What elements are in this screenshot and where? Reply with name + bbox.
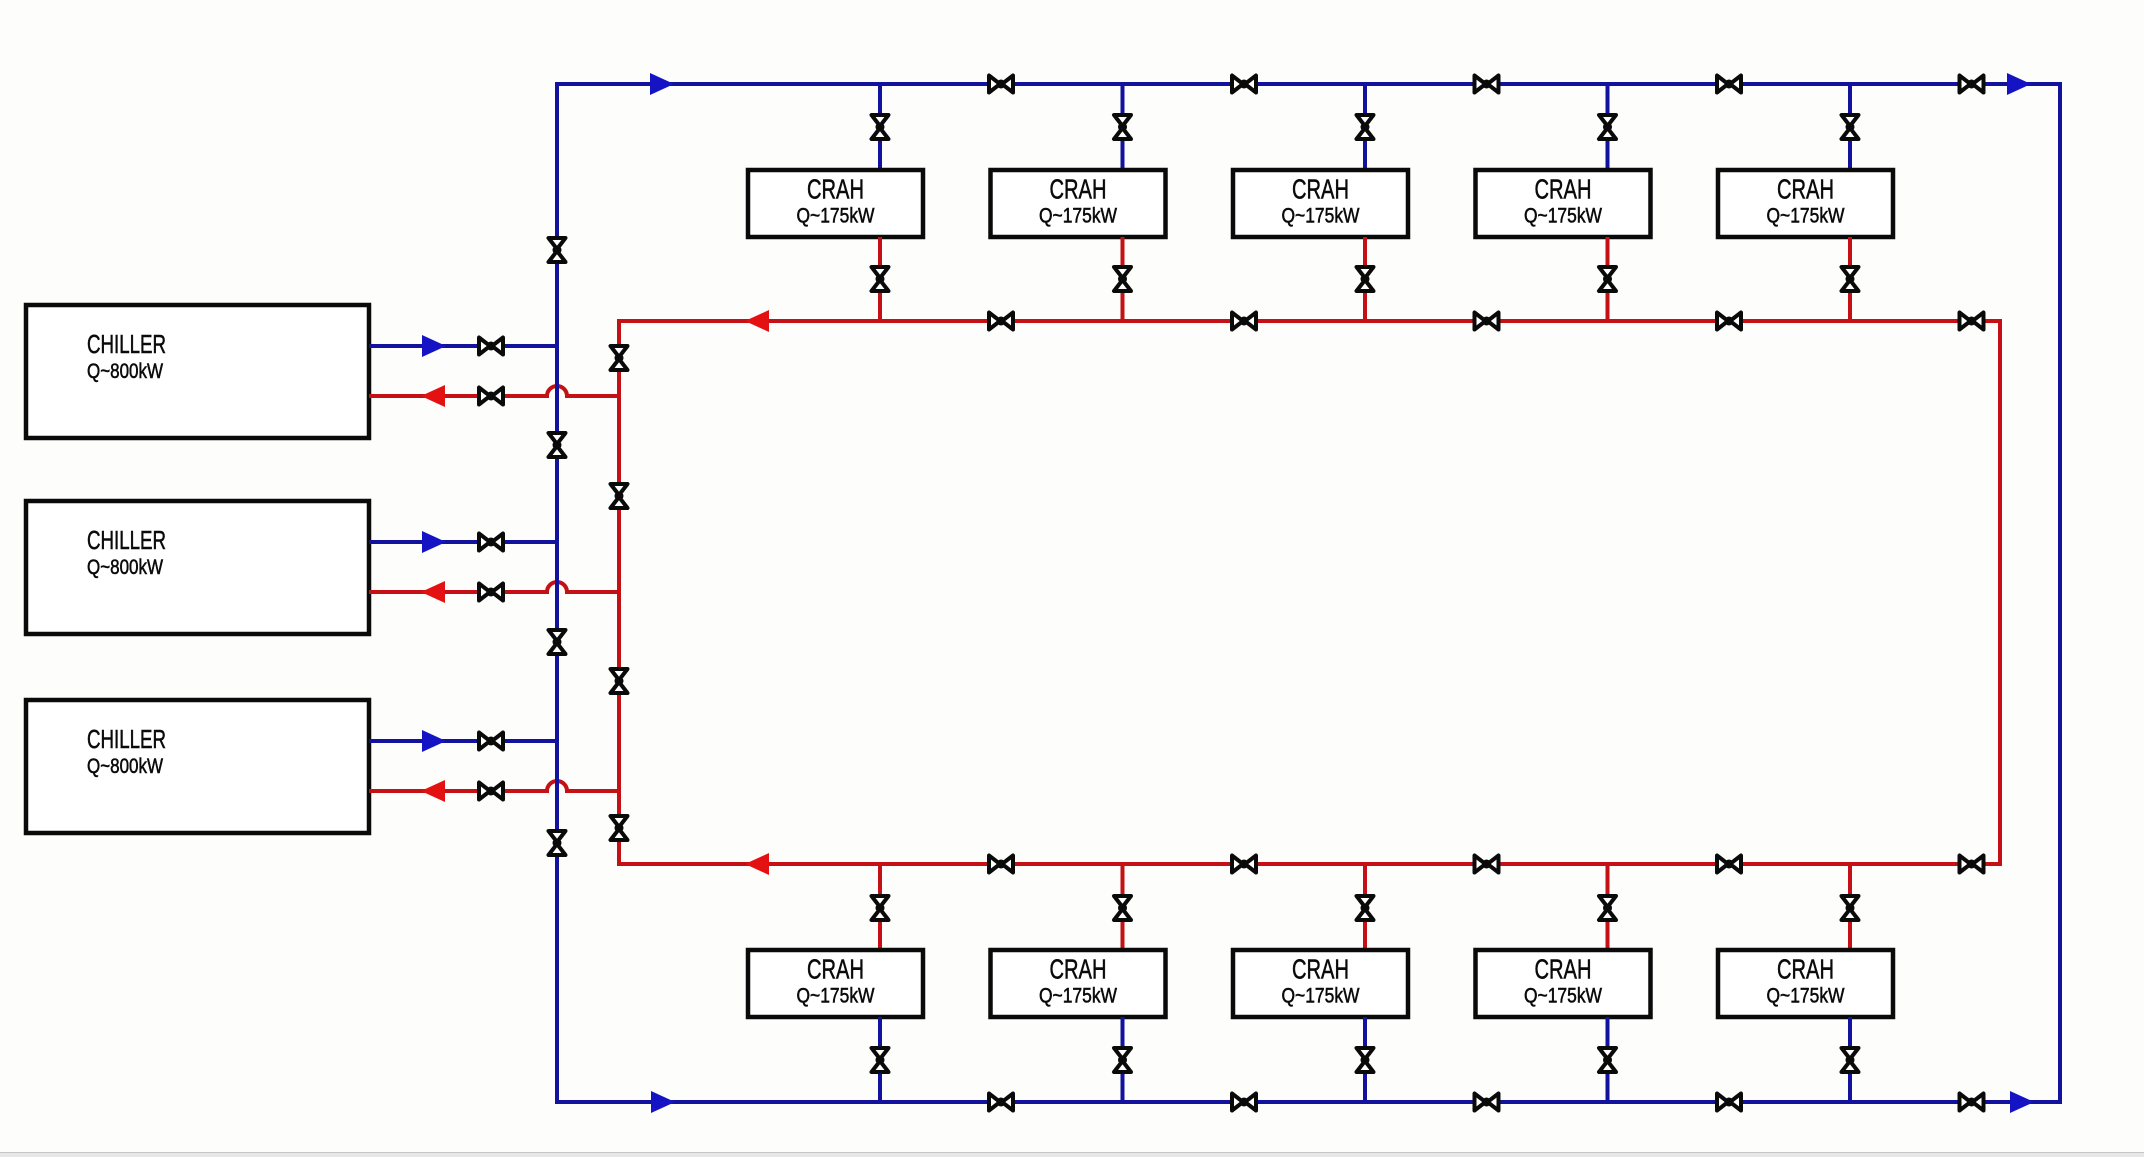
decorative bottom strip [0, 1152, 2144, 1157]
valve: top supply header valve at x=1971.5 [1960, 76, 1984, 93]
valve: top return header valve at x=1971.5 [1960, 313, 1984, 330]
CRAH unit (top row 5) box [1718, 170, 1893, 237]
valve: return riser sectionalizing valve at y=496 [611, 484, 628, 508]
CRAH unit (bottom row 3) box [1233, 950, 1408, 1017]
wire: bottom CRAH 2 supply branch [1121, 1017, 1125, 1102]
wire: chiller CH1 return pipe with jump over supply riser [369, 386, 619, 396]
svg-text:CRAH: CRAH [1050, 174, 1107, 205]
valve: top CRAH 4 return branch valve [1599, 267, 1616, 291]
valve: top CRAH 5 return branch valve [1842, 267, 1859, 291]
valve: bottom CRAH 4 supply branch valve [1599, 1048, 1616, 1072]
svg-text:CRAH: CRAH [1292, 954, 1349, 985]
valve: chiller CH2 return isolation valve [479, 584, 503, 601]
svg-text:CRAH: CRAH [1050, 954, 1107, 985]
valve: top CRAH 4 supply branch valve [1599, 115, 1616, 139]
valve: chiller CH3 return isolation valve [479, 783, 503, 800]
chiller CH1 box [26, 305, 369, 438]
svg-text:CRAH: CRAH [807, 174, 864, 205]
svg-text:Q~800kW: Q~800kW [87, 556, 163, 579]
valve: bottom supply header valve at x=1729 [1717, 1094, 1741, 1111]
valve: top return header valve at x=1729 [1717, 313, 1741, 330]
wire: top CRAH 4 supply branch [1606, 84, 1610, 170]
valve: chiller CH1 supply isolation valve [479, 338, 503, 355]
valve: bottom CRAH 3 return branch valve [1357, 896, 1374, 920]
wire: chiller CH1 supply pipe [369, 344, 557, 348]
svg-text:Q~800kW: Q~800kW [87, 755, 163, 778]
flow arrow: bottom supply header, left [651, 1091, 675, 1113]
valve: top CRAH 1 supply branch valve [872, 115, 889, 139]
CRAH unit (top row 2) box [991, 170, 1166, 237]
valve: top return header valve at x=1244 [1232, 313, 1256, 330]
flow arrow: bottom return header [745, 853, 769, 875]
wire: chilled water return header, right riser [1998, 319, 2002, 866]
valve: bottom return header valve at x=1001 [989, 856, 1013, 873]
wire: bottom CRAH 5 return branch [1848, 864, 1852, 950]
svg-text:CHILLER: CHILLER [87, 724, 166, 754]
valve: bottom CRAH 1 supply branch valve [872, 1048, 889, 1072]
valve: bottom supply header valve at x=1971.5 [1960, 1094, 1984, 1111]
wire: chilled water return header, top run [619, 319, 2000, 323]
valve: bottom supply header valve at x=1001 [989, 1094, 1013, 1111]
svg-text:CRAH: CRAH [1777, 954, 1834, 985]
CRAH unit (top row 1) box [748, 170, 923, 237]
valve: supply riser sectionalizing valve at y=843 [549, 831, 566, 855]
chiller CH2 box [26, 501, 369, 634]
valve: top CRAH 1 return branch valve [872, 267, 889, 291]
flow arrow: bottom supply header, right [2010, 1091, 2034, 1113]
chiller CH3 box [26, 700, 369, 833]
wire: chiller CH3 return pipe with jump over supply riser [369, 781, 619, 791]
wire: chilled water return header, bottom run [619, 862, 2000, 866]
valve: top return header valve at x=1486.5 [1475, 313, 1499, 330]
valve: supply riser sectionalizing valve at y=642 [549, 630, 566, 654]
flow arrow: chiller CH2 supply [422, 531, 446, 553]
svg-text:Q~175kW: Q~175kW [797, 205, 875, 228]
svg-text:Q~175kW: Q~175kW [1767, 205, 1845, 228]
wire: bottom CRAH 1 return branch [878, 864, 882, 950]
flow arrow: top supply header, right [2007, 73, 2031, 95]
wire: top CRAH 1 supply branch [878, 84, 882, 170]
valve: return riser sectionalizing valve at y=358 [611, 346, 628, 370]
svg-text:Q~800kW: Q~800kW [87, 360, 163, 383]
wire: bottom CRAH 3 supply branch [1363, 1017, 1367, 1102]
valve: bottom CRAH 2 return branch valve [1114, 896, 1131, 920]
svg-text:Q~175kW: Q~175kW [1767, 985, 1845, 1008]
valve: bottom CRAH 4 return branch valve [1599, 896, 1616, 920]
svg-text:CHILLER: CHILLER [87, 329, 166, 359]
wire: bottom CRAH 5 supply branch [1848, 1017, 1852, 1102]
wire: bottom CRAH 4 return branch [1606, 864, 1610, 950]
svg-text:Q~175kW: Q~175kW [1282, 985, 1360, 1008]
svg-text:CRAH: CRAH [1292, 174, 1349, 205]
flow arrow: top supply header, left [650, 73, 674, 95]
wire: bottom CRAH 1 supply branch [878, 1017, 882, 1102]
wire: chilled water supply header, bottom run [557, 1100, 2060, 1104]
flow arrow: top return header [745, 310, 769, 332]
wire: top CRAH 2 return branch [1121, 237, 1125, 321]
svg-text:CRAH: CRAH [1535, 954, 1592, 985]
flow arrow: chiller CH3 return [421, 780, 445, 802]
svg-text:CHILLER: CHILLER [87, 525, 166, 555]
svg-text:Q~175kW: Q~175kW [797, 985, 875, 1008]
wire: bottom CRAH 2 return branch [1121, 864, 1125, 950]
valve: top CRAH 5 supply branch valve [1842, 115, 1859, 139]
valve: chiller CH1 return isolation valve [479, 388, 503, 405]
valve: top supply header valve at x=1486.5 [1475, 76, 1499, 93]
svg-text:CRAH: CRAH [1535, 174, 1592, 205]
valve: bottom supply header valve at x=1486.5 [1475, 1094, 1499, 1111]
valve: bottom return header valve at x=1971.5 [1960, 856, 1984, 873]
CRAH unit (top row 4) box [1476, 170, 1651, 237]
valve: top CRAH 2 supply branch valve [1114, 115, 1131, 139]
valve: bottom CRAH 1 return branch valve [872, 896, 889, 920]
valve: return riser sectionalizing valve at y=828 [611, 816, 628, 840]
valve: top return header valve at x=1001 [989, 313, 1013, 330]
wire: chiller CH2 supply pipe [369, 540, 557, 544]
valve: top CRAH 3 supply branch valve [1357, 115, 1374, 139]
CRAH unit (bottom row 1) box [748, 950, 923, 1017]
valve: bottom return header valve at x=1244 [1232, 856, 1256, 873]
wire: top CRAH 3 return branch [1363, 237, 1367, 321]
svg-text:Q~175kW: Q~175kW [1524, 205, 1602, 228]
wire: top CRAH 3 supply branch [1363, 84, 1367, 170]
svg-text:Q~175kW: Q~175kW [1039, 205, 1117, 228]
CRAH unit (bottom row 2) box [991, 950, 1166, 1017]
valve: top supply header valve at x=1001 [989, 76, 1013, 93]
svg-text:CRAH: CRAH [1777, 174, 1834, 205]
wire: chilled water return header, left riser [617, 319, 621, 866]
wire: chilled water supply header, right riser [2058, 82, 2062, 1104]
wire: top CRAH 1 return branch [878, 237, 882, 321]
valve: bottom CRAH 5 supply branch valve [1842, 1048, 1859, 1072]
valve: chiller CH2 supply isolation valve [479, 534, 503, 551]
svg-text:Q~175kW: Q~175kW [1039, 985, 1117, 1008]
valve: return riser sectionalizing valve at y=681 [611, 669, 628, 693]
wire: top CRAH 4 return branch [1606, 237, 1610, 321]
valve: top supply header valve at x=1244 [1232, 76, 1256, 93]
svg-text:Q~175kW: Q~175kW [1282, 205, 1360, 228]
wire: chilled water supply header, left riser [555, 82, 559, 1104]
valve: bottom return header valve at x=1729 [1717, 856, 1741, 873]
valve: supply riser sectionalizing valve at y=250 [549, 238, 566, 262]
wire: top CRAH 5 return branch [1848, 237, 1852, 321]
valve: chiller CH3 supply isolation valve [479, 733, 503, 750]
valve: bottom CRAH 2 supply branch valve [1114, 1048, 1131, 1072]
wire: chilled water supply header, top run [557, 82, 2060, 86]
wire: bottom CRAH 3 return branch [1363, 864, 1367, 950]
valve: bottom CRAH 5 return branch valve [1842, 896, 1859, 920]
wire: top CRAH 5 supply branch [1848, 84, 1852, 170]
flow arrow: chiller CH1 return [421, 385, 445, 407]
wire: bottom CRAH 4 supply branch [1606, 1017, 1610, 1102]
CRAH unit (bottom row 4) box [1476, 950, 1651, 1017]
svg-text:Q~175kW: Q~175kW [1524, 985, 1602, 1008]
flow arrow: chiller CH3 supply [422, 730, 446, 752]
valve: top supply header valve at x=1729 [1717, 76, 1741, 93]
valve: supply riser sectionalizing valve at y=445 [549, 433, 566, 457]
flow arrow: chiller CH1 supply [422, 335, 446, 357]
valve: top CRAH 2 return branch valve [1114, 267, 1131, 291]
wire: chiller CH3 supply pipe [369, 739, 557, 743]
valve: bottom supply header valve at x=1244 [1232, 1094, 1256, 1111]
flow arrow: chiller CH2 return [421, 581, 445, 603]
wire: top CRAH 2 supply branch [1121, 84, 1125, 170]
svg-text:CRAH: CRAH [807, 954, 864, 985]
valve: top CRAH 3 return branch valve [1357, 267, 1374, 291]
CRAH unit (top row 3) box [1233, 170, 1408, 237]
CRAH unit (bottom row 5) box [1718, 950, 1893, 1017]
valve: bottom return header valve at x=1486.5 [1475, 856, 1499, 873]
valve: bottom CRAH 3 supply branch valve [1357, 1048, 1374, 1072]
wire: chiller CH2 return pipe with jump over supply riser [369, 582, 619, 592]
